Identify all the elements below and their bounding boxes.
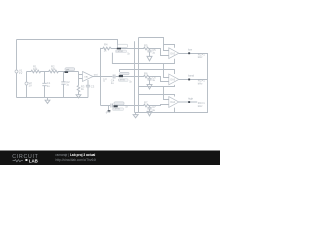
svg-text:1u: 1u bbox=[152, 50, 155, 54]
svg-text:kHz: kHz bbox=[198, 81, 203, 85]
svg-text:C3: C3 bbox=[91, 85, 95, 89]
svg-text:kHz: kHz bbox=[198, 104, 203, 108]
svg-text:1V: 1V bbox=[19, 71, 22, 75]
svg-text:LM741: LM741 bbox=[119, 79, 126, 81]
svg-text:OA1: OA1 bbox=[84, 75, 89, 78]
svg-text:R5: R5 bbox=[144, 44, 148, 48]
svg-text:1u: 1u bbox=[111, 81, 114, 85]
svg-text:OA4: OA4 bbox=[170, 101, 175, 104]
svg-text:1u: 1u bbox=[47, 84, 50, 88]
svg-text:R6: R6 bbox=[144, 71, 148, 75]
svg-text:LAB: LAB bbox=[29, 158, 38, 163]
svg-text:1k: 1k bbox=[129, 81, 132, 84]
svg-text:10k: 10k bbox=[51, 67, 56, 71]
svg-text:1k: 1k bbox=[104, 49, 107, 53]
svg-text:1V: 1V bbox=[29, 84, 32, 88]
svg-text:OA3: OA3 bbox=[170, 79, 175, 82]
svg-text:1u: 1u bbox=[152, 108, 155, 112]
svg-text:10k: 10k bbox=[33, 67, 38, 71]
svg-text:low: low bbox=[188, 47, 192, 51]
svg-text:OA2: OA2 bbox=[170, 52, 175, 55]
svg-text:1k: 1k bbox=[127, 53, 130, 56]
svg-text:band: band bbox=[188, 74, 194, 78]
svg-text:LM741: LM741 bbox=[117, 51, 124, 53]
svg-text:1u: 1u bbox=[66, 83, 69, 87]
svg-text:gnd: gnd bbox=[106, 110, 111, 114]
svg-text:pot: pot bbox=[66, 68, 69, 71]
svg-text:LM741: LM741 bbox=[114, 109, 121, 111]
svg-text:kHz: kHz bbox=[198, 55, 203, 59]
svg-text:ramarajr | Lab proj 3 actual: ramarajr | Lab proj 3 actual bbox=[56, 153, 96, 157]
svg-text:http://circuitlab.com/c/7hv64t: http://circuitlab.com/c/7hv64t bbox=[56, 158, 97, 162]
svg-text:R4: R4 bbox=[104, 43, 108, 47]
svg-text:high: high bbox=[188, 96, 194, 100]
svg-text:R7: R7 bbox=[144, 100, 148, 104]
svg-text:1u: 1u bbox=[152, 78, 155, 82]
svg-text:out: out bbox=[94, 73, 98, 77]
